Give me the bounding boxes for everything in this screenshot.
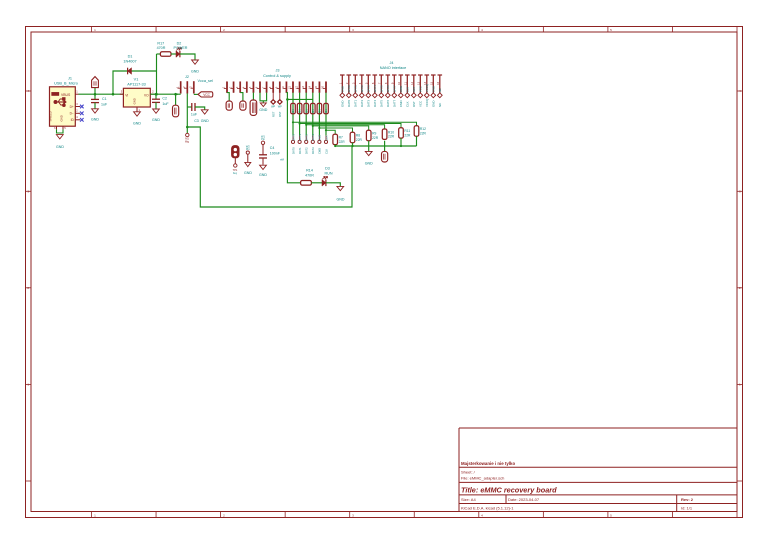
svg-text:GND: GND — [133, 122, 141, 126]
svg-text:DAT3: DAT3 — [367, 99, 371, 107]
svg-text:10: 10 — [397, 81, 401, 84]
svg-text:CMD: CMD — [318, 135, 322, 141]
svg-text:GND: GND — [133, 98, 137, 104]
svg-text:VCC: VCC — [203, 93, 210, 97]
svg-text:Majsterkowanie i nie tylko: Majsterkowanie i nie tylko — [461, 461, 515, 466]
svg-text:CMD: CMD — [399, 86, 403, 93]
svg-text:USB_B_Micro: USB_B_Micro — [54, 81, 78, 85]
svg-text:CLK: CLK — [324, 135, 328, 140]
svg-text:DAT0: DAT0 — [291, 134, 295, 141]
svg-text:J2: J2 — [185, 75, 189, 79]
svg-text:RST: RST — [412, 86, 416, 92]
svg-text:NANO interface: NANO interface — [380, 66, 407, 70]
svg-text:DAT6: DAT6 — [386, 99, 390, 107]
svg-text:J4: J4 — [389, 61, 393, 65]
svg-text:1uF: 1uF — [162, 102, 169, 106]
svg-text:GND: GND — [432, 101, 436, 107]
svg-text:DAT2: DAT2 — [360, 85, 364, 93]
svg-text:22R: 22R — [372, 136, 379, 140]
svg-text:DAT1: DAT1 — [354, 99, 358, 107]
svg-text:22R: 22R — [420, 131, 427, 135]
svg-text:D3: D3 — [325, 167, 330, 171]
svg-text:Mtg: Mtg — [185, 141, 190, 144]
svg-text:12: 12 — [410, 81, 414, 84]
svg-text:22R: 22R — [404, 133, 411, 137]
svg-text:GND: GND — [244, 171, 252, 175]
svg-text:DAT5: DAT5 — [380, 85, 384, 93]
svg-text:RST: RST — [412, 101, 416, 107]
svg-text:C3: C3 — [194, 119, 199, 123]
svg-text:GND: GND — [60, 115, 64, 121]
svg-text:VCC: VCC — [419, 86, 423, 92]
svg-text:File: eMMC_adapter.sch: File: eMMC_adapter.sch — [461, 476, 504, 481]
svg-text:CLK: CLK — [406, 101, 410, 107]
svg-text:Size: A4: Size: A4 — [461, 497, 476, 502]
svg-text:DAT2: DAT2 — [305, 147, 309, 154]
svg-text:AP1117-33: AP1117-33 — [127, 82, 145, 86]
svg-text:VCCQ: VCCQ — [425, 98, 429, 107]
svg-text:RST: RST — [278, 111, 282, 117]
svg-text:DAT3: DAT3 — [311, 134, 315, 141]
svg-text:22K: 22K — [312, 109, 315, 114]
svg-text:GND: GND — [341, 101, 345, 107]
svg-text:22K: 22K — [299, 109, 302, 114]
svg-text:C4: C4 — [270, 146, 275, 150]
svg-text:VCC: VCC — [419, 101, 423, 107]
svg-text:100nF: 100nF — [270, 151, 281, 155]
svg-text:16: 16 — [436, 81, 440, 84]
svg-text:VI: VI — [125, 93, 128, 97]
svg-text:22K: 22K — [319, 109, 322, 114]
svg-text:DAT2: DAT2 — [360, 99, 364, 107]
svg-text:22K: 22K — [325, 109, 328, 114]
svg-text:1N4007: 1N4007 — [123, 60, 136, 64]
svg-text:DAT4: DAT4 — [373, 85, 377, 93]
svg-text:CLK: CLK — [324, 149, 328, 154]
svg-text:1uF: 1uF — [191, 112, 198, 116]
svg-text:DAT2: DAT2 — [305, 134, 309, 141]
svg-text:DAT0: DAT0 — [347, 99, 351, 107]
svg-text:GND: GND — [259, 173, 267, 177]
svg-text:GND: GND — [365, 161, 373, 165]
svg-text:GND: GND — [337, 198, 345, 202]
svg-text:Title: eMMC recovery board: Title: eMMC recovery board — [461, 485, 557, 494]
svg-text:GND: GND — [91, 118, 99, 122]
svg-text:22K: 22K — [305, 109, 308, 114]
svg-text:GND: GND — [432, 86, 436, 92]
svg-text:eM: eM — [280, 157, 284, 161]
svg-text:VCCQ: VCCQ — [425, 83, 429, 92]
svg-text:DAT4: DAT4 — [373, 99, 377, 107]
svg-text:R14: R14 — [306, 169, 313, 173]
svg-text:DAT3: DAT3 — [367, 85, 371, 93]
svg-text:Date: 2023-04-07: Date: 2023-04-07 — [508, 497, 540, 502]
svg-text:SHIELD: SHIELD — [48, 111, 52, 121]
svg-text:22R: 22R — [339, 140, 346, 144]
svg-text:DAT7: DAT7 — [393, 99, 397, 107]
svg-text:D+: D+ — [70, 105, 74, 109]
svg-text:GND: GND — [259, 108, 267, 112]
svg-text:470R: 470R — [157, 46, 166, 50]
svg-text:CMD: CMD — [399, 100, 403, 107]
svg-text:J1: J1 — [68, 77, 72, 81]
svg-text:GND: GND — [201, 119, 209, 123]
svg-text:GND: GND — [56, 145, 64, 149]
svg-text:KiCad E.D.A. kicad (5.1.12)-1: KiCad E.D.A. kicad (5.1.12)-1 — [461, 505, 514, 510]
svg-text:NC: NC — [438, 88, 442, 92]
svg-text:GND: GND — [191, 69, 199, 73]
svg-text:C1: C1 — [102, 97, 107, 101]
svg-text:22K: 22K — [292, 109, 295, 114]
svg-text:22R: 22R — [388, 135, 395, 139]
svg-text:D2: D2 — [177, 42, 182, 46]
svg-text:WP: WP — [271, 106, 275, 109]
svg-text:D−: D− — [70, 112, 74, 116]
svg-text:DAT5: DAT5 — [380, 99, 384, 107]
svg-text:DAT0: DAT0 — [347, 85, 351, 93]
svg-text:DAT6: DAT6 — [386, 85, 390, 93]
svg-text:J3: J3 — [275, 69, 279, 73]
svg-text:CMD: CMD — [318, 148, 322, 154]
svg-text:RUN: RUN — [325, 172, 333, 176]
svg-text:C2: C2 — [162, 96, 167, 100]
svg-text:R17: R17 — [157, 42, 164, 46]
svg-text:15: 15 — [430, 81, 434, 84]
svg-text:DAT1: DAT1 — [354, 85, 358, 93]
svg-text:Id: 1/1: Id: 1/1 — [681, 505, 693, 510]
svg-text:1uF: 1uF — [101, 103, 108, 107]
svg-text:13: 13 — [417, 81, 421, 84]
svg-text:D1: D1 — [128, 55, 133, 59]
svg-text:DAT1: DAT1 — [298, 147, 302, 154]
svg-text:GND: GND — [152, 118, 160, 122]
svg-text:RST: RST — [271, 111, 275, 117]
svg-text:22R: 22R — [356, 138, 363, 142]
svg-text:POWER: POWER — [174, 46, 188, 50]
svg-text:Vcca_sel: Vcca_sel — [198, 79, 214, 83]
svg-text:DAT0: DAT0 — [291, 147, 295, 154]
svg-text:GND: GND — [341, 86, 345, 92]
svg-text:470R: 470R — [305, 174, 314, 178]
svg-text:VO: VO — [144, 93, 149, 97]
svg-text:NC: NC — [438, 103, 442, 107]
svg-text:VBUS: VBUS — [61, 93, 71, 97]
svg-text:WP: WP — [278, 106, 282, 109]
svg-text:Control & supply: Control & supply — [263, 74, 291, 78]
svg-text:DAT7: DAT7 — [393, 85, 397, 93]
svg-text:V1: V1 — [134, 78, 139, 82]
svg-text:DAT3: DAT3 — [311, 147, 315, 154]
svg-text:DAT1: DAT1 — [298, 134, 302, 141]
svg-text:CLK: CLK — [406, 87, 410, 93]
svg-text:Rev: 2: Rev: 2 — [681, 497, 694, 502]
svg-text:Sheet: /: Sheet: / — [461, 469, 476, 474]
